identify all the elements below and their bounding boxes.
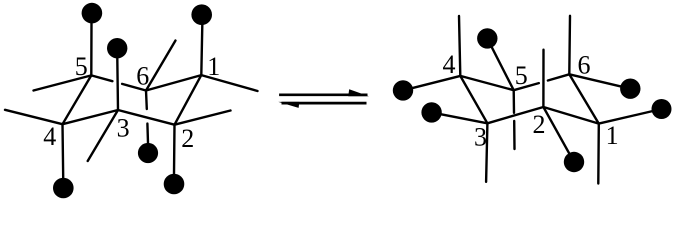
svg-text:1: 1	[606, 121, 619, 150]
svg-text:4: 4	[443, 50, 456, 79]
svg-text:6: 6	[136, 62, 149, 91]
svg-text:3: 3	[117, 113, 130, 142]
svg-text:5: 5	[75, 52, 88, 81]
svg-text:1: 1	[207, 52, 220, 81]
svg-text:5: 5	[515, 61, 528, 90]
svg-text:4: 4	[43, 122, 56, 151]
svg-text:2: 2	[533, 110, 546, 139]
svg-text:3: 3	[474, 123, 487, 152]
svg-text:6: 6	[578, 51, 591, 80]
svg-text:2: 2	[181, 124, 194, 153]
